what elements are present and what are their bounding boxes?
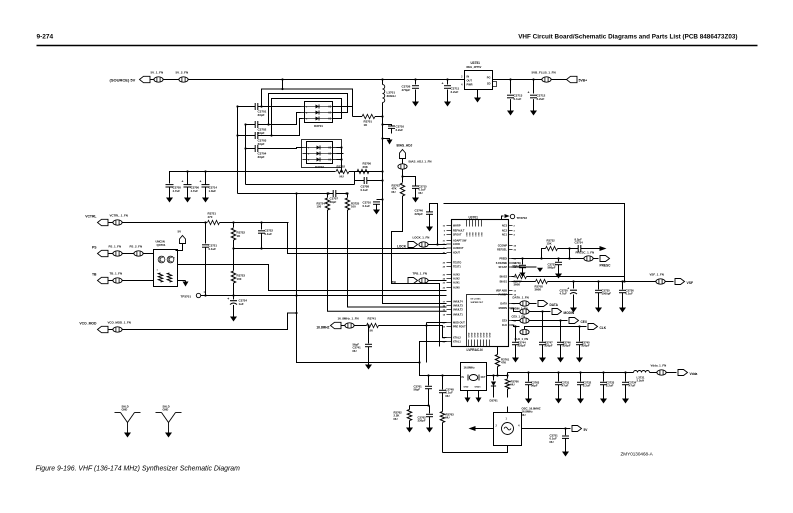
svg-text:CEX: CEX	[581, 320, 588, 324]
wire	[456, 375, 461, 377]
svg-text:BIAS_ADJ: BIAS_ADJ	[397, 144, 413, 148]
svg-text:16_8MHz_1_FN: 16_8MHz_1_FN	[338, 317, 359, 321]
ferrite bead VCTRL_1_FN	[109, 222, 113, 224]
svg-text:DATA: DATA	[550, 303, 559, 307]
svg-text:LOCK_1_FN: LOCK_1_FN	[413, 236, 430, 240]
svg-text:DATA_1_FN: DATA_1_FN	[513, 296, 529, 300]
svg-text:+: +	[182, 180, 184, 184]
wire row 2 to IC	[288, 223, 447, 254]
svg-text:ZMY0130468-A: ZMY0130468-A	[621, 452, 654, 457]
ground SFCAP stub	[512, 266, 537, 268]
diode array D3701	[305, 102, 333, 123]
wire 5V rail	[189, 79, 461, 81]
svg-text:GND: GND	[122, 408, 128, 412]
capacitor C3724	[233, 296, 235, 300]
svg-text:VCTRL: VCTRL	[85, 215, 96, 219]
svg-text:VHF Circuit Board/Schematic Di: VHF Circuit Board/Schematic Diagrams and…	[518, 34, 737, 41]
svg-text:MODIN_1_FN: MODIN_1_FN	[511, 307, 528, 311]
connector 5V right	[572, 426, 582, 432]
capacitor C3747 220pF	[542, 312, 544, 342]
svg-text:5VB+: 5VB+	[579, 79, 588, 83]
capacitor C3713	[510, 80, 512, 94]
svg-text:1.0uF: 1.0uF	[209, 189, 217, 193]
resistor R3703	[402, 177, 404, 183]
wire loop inner	[272, 99, 342, 136]
svg-text:4.7uF: 4.7uF	[191, 189, 199, 193]
svg-text:TP3702: TP3702	[517, 216, 528, 220]
svg-text:WARP: WARP	[453, 225, 461, 228]
capacitor C3762	[429, 406, 431, 414]
diode array D3702	[307, 142, 333, 164]
connector VSF	[675, 279, 685, 285]
capacitor C3734 8.2pF	[558, 248, 579, 250]
svg-text:TP3701: TP3701	[181, 295, 192, 299]
svg-text:560pF: 560pF	[513, 264, 521, 268]
resistor R3725	[347, 194, 349, 198]
svg-text:2.2uF: 2.2uF	[583, 384, 591, 388]
wire	[143, 253, 153, 255]
capacitor C3708	[355, 172, 365, 181]
svg-text:R3702: R3702	[337, 165, 346, 169]
svg-text:0.1uF: 0.1uF	[265, 232, 273, 236]
svg-text:5VD: 5VD	[482, 232, 484, 237]
svg-text:16.8MHz: 16.8MHz	[464, 366, 476, 370]
wire reference bus lower	[297, 296, 420, 363]
connector PRESC	[600, 256, 610, 262]
svg-text:TB: TB	[392, 281, 397, 285]
svg-text:MODIN: MODIN	[499, 307, 508, 310]
legend ground symbol 2	[156, 412, 162, 414]
svg-text:47K: 47K	[501, 361, 506, 365]
wire loop middle	[269, 94, 348, 125]
ferrite bead CLK_1_FN	[512, 324, 514, 326]
ferrite bead Vdda_1_FN	[657, 370, 666, 375]
svg-text:0.1uF: 0.1uF	[514, 97, 522, 101]
svg-text:CLK: CLK	[502, 324, 507, 327]
svg-text:Figure 9-196. VHF (136-174 MH: Figure 9-196. VHF (136-174 MHz) Synthesi…	[36, 466, 241, 473]
ferrite bead VSF_1_FN	[656, 279, 665, 284]
svg-text:100: 100	[351, 205, 356, 209]
capacitor C3729	[522, 259, 524, 265]
capacitor C3714	[205, 172, 207, 185]
capacitor C3748	[442, 376, 444, 390]
inductor L3701	[382, 80, 384, 85]
node BIAS_ADJ	[383, 139, 390, 140]
svg-text:MOD OUT: MOD OUT	[453, 322, 465, 325]
svg-text:2.2uF: 2.2uF	[451, 90, 459, 94]
arrow prescaler	[600, 246, 607, 251]
resistor R3724	[327, 194, 329, 198]
svg-text:56: 56	[370, 329, 374, 333]
svg-text:+: +	[200, 180, 202, 184]
svg-text:GND: GND	[478, 332, 480, 337]
resistor R3707	[512, 276, 515, 278]
svg-text:56pF: 56pF	[414, 388, 421, 392]
svg-text:.47uF: .47uF	[561, 384, 569, 388]
svg-text:+: +	[528, 91, 530, 95]
resistor R3741	[354, 325, 366, 327]
svg-text:15K: 15K	[547, 242, 552, 246]
svg-text:1uF: 1uF	[239, 302, 244, 306]
svg-text:GND: GND	[484, 332, 486, 337]
ferrite bead 5V_1_FN	[154, 77, 163, 82]
capacitor C3732	[580, 373, 582, 382]
capacitor C3704	[246, 148, 256, 150]
ferrite bead 5VB_FLLB_1_FN	[542, 77, 551, 82]
capacitor C3744 220pF	[515, 327, 517, 342]
connector CLK	[588, 324, 598, 330]
svg-text:360K: 360K	[514, 283, 521, 287]
ferrite bead LOCK_1_FN	[419, 242, 428, 247]
svg-text:5VD: 5VD	[473, 232, 475, 237]
wire row MOD OUT	[427, 322, 447, 324]
resistor R3701	[352, 107, 354, 117]
wire	[282, 80, 284, 90]
capacitor C3733	[603, 373, 605, 382]
wire PREDI row	[512, 258, 584, 260]
svg-text:LOCK: LOCK	[397, 245, 407, 249]
capacitor C3712	[533, 80, 535, 94]
svg-text:S FRAME: S FRAME	[496, 262, 508, 265]
svg-text:33pF: 33pF	[258, 155, 265, 159]
svg-text:Vdda_1_FN: Vdda_1_FN	[651, 364, 667, 368]
svg-text:0.1uF: 0.1uF	[363, 204, 371, 208]
svg-text:PRESC: PRESC	[600, 264, 612, 268]
wire bias bus	[382, 103, 384, 200]
svg-text:AUX1: AUX1	[453, 282, 460, 285]
svg-text:GND: GND	[464, 387, 469, 389]
wire D3702 to R3702 node	[341, 148, 343, 172]
wire	[122, 280, 153, 282]
svg-text:GND: GND	[481, 332, 483, 337]
svg-text:D3701: D3701	[314, 124, 323, 128]
svg-text:BIAS_ADJ_1_FN: BIAS_ADJ_1_FN	[409, 160, 432, 164]
header rule	[37, 45, 758, 47]
ferrite bead PS_1_FN	[109, 253, 113, 255]
wire R3732 branch	[542, 249, 546, 259]
capacitor C3705	[166, 184, 174, 186]
wire row VMULT c	[328, 210, 447, 311]
wire to XTAL1	[379, 326, 447, 338]
wire Q3701 5V feed	[176, 244, 183, 251]
svg-text:16.8MHZ: 16.8MHZ	[316, 326, 329, 330]
resistor R3722	[233, 223, 235, 228]
ground Y3741 a	[467, 391, 469, 398]
transistor pair Q3701	[154, 250, 178, 287]
resistor R3723	[233, 249, 235, 271]
wire	[349, 171, 383, 173]
svg-text:NU: NU	[550, 440, 554, 444]
module box notch	[392, 201, 440, 347]
wire osc bottom return	[443, 446, 508, 453]
svg-text:5VD: 5VD	[476, 232, 478, 237]
svg-text:D3761: D3761	[490, 399, 499, 403]
svg-text:470: 470	[208, 215, 213, 219]
svg-text:GND: GND	[472, 332, 474, 337]
resistor R3702	[336, 169, 349, 173]
svg-text:AUXOUT: AUXOUT	[453, 247, 464, 250]
svg-text:CLK: CLK	[600, 326, 607, 330]
junction	[186, 170, 188, 172]
svg-text:U3701: U3701	[469, 216, 479, 220]
svg-text:4.7uF: 4.7uF	[560, 292, 568, 296]
svg-text:AUX3: AUX3	[453, 274, 460, 277]
svg-text:33pF: 33pF	[258, 131, 265, 135]
wire supply bus to cap bank	[170, 172, 336, 184]
svg-text:PREDI: PREDI	[499, 258, 507, 261]
ferrite bead DATA_1_FN	[512, 303, 520, 305]
module box outline	[444, 204, 625, 282]
svg-text:0.1uF: 0.1uF	[361, 188, 369, 192]
svg-text:2.2uF: 2.2uF	[606, 384, 614, 388]
wire VSF rail	[548, 281, 656, 283]
capacitor C3722	[261, 223, 263, 230]
svg-text:REG_4P75V: REG_4P75V	[467, 65, 482, 69]
capacitor C3751	[565, 429, 567, 436]
svg-text:NU: NU	[419, 191, 423, 195]
wire osc left	[475, 428, 494, 430]
resistor R3761	[497, 347, 499, 355]
junction	[509, 78, 511, 80]
svg-text:OUT: OUT	[467, 79, 473, 83]
svg-text:5V: 5V	[178, 230, 182, 234]
svg-text:PS_2_FN: PS_2_FN	[130, 245, 143, 249]
svg-text:Vdda: Vdda	[690, 372, 698, 376]
svg-text:C3734: C3734	[575, 241, 584, 245]
svg-text:VMULT3: VMULT3	[453, 305, 463, 308]
connector CEX	[569, 318, 579, 324]
svg-text:LOCK: LOCK	[453, 243, 460, 246]
ferrite bead TB_1_FN	[109, 280, 113, 282]
connector 5V source	[140, 76, 151, 82]
connector BIAS_ADJ up-arrow	[400, 150, 406, 159]
capacitor C3731	[558, 373, 560, 382]
svg-text:AUX0: AUX0	[453, 287, 460, 290]
svg-text:BIAS2: BIAS2	[500, 276, 508, 279]
ground Q3701	[178, 280, 186, 282]
svg-text:PS_1_FN: PS_1_FN	[109, 245, 122, 249]
svg-text:220pF: 220pF	[545, 344, 553, 348]
svg-text:VMULT4: VMULT4	[453, 301, 463, 304]
legend ground symbol 1	[115, 412, 121, 414]
svg-text:560pF: 560pF	[548, 266, 556, 270]
wire Q3701 collector row	[178, 265, 447, 291]
wire vertical reference bus	[296, 194, 298, 296]
svg-text:SD: SD	[487, 82, 491, 86]
svg-text:VCO_MOD_1_FN: VCO_MOD_1_FN	[108, 321, 131, 325]
svg-text:GND1: GND1	[475, 387, 482, 389]
svg-text:DATA: DATA	[500, 303, 507, 306]
svg-text:SFOUT: SFOUT	[453, 234, 462, 237]
resistor R3766	[507, 376, 509, 379]
svg-text:2.2uF: 2.2uF	[537, 97, 545, 101]
capacitor C3715	[403, 177, 416, 186]
svg-text:NU: NU	[446, 416, 450, 420]
svg-text:2.2uF: 2.2uF	[396, 128, 404, 132]
svg-text:.47uF: .47uF	[628, 384, 636, 388]
svg-text:NU: NU	[511, 383, 515, 387]
ferrite bead TPB_1_FN	[419, 278, 428, 283]
svg-text:REFAULT: REFAULT	[453, 230, 465, 233]
ferrite bead 16_8MHz_1_FN	[341, 325, 345, 327]
connector MODIN	[552, 309, 562, 315]
svg-text:TPB_1_FN: TPB_1_FN	[413, 272, 427, 276]
wire osc top	[507, 407, 509, 413]
connector DATA	[538, 301, 548, 307]
svg-text:PRE FOUT: PRE FOUT	[453, 326, 466, 329]
capacitor C3730	[573, 282, 575, 289]
svg-text:5VD: 5VD	[479, 232, 481, 237]
wire	[569, 249, 571, 259]
capacitor C3706	[187, 172, 189, 185]
svg-text:XTAL1: XTAL1	[453, 341, 461, 344]
capacitor C3710	[377, 199, 383, 201]
wire 5VB rail	[498, 79, 542, 81]
svg-text:VSF: VSF	[687, 281, 694, 285]
svg-text:PS: PS	[92, 246, 97, 250]
wire row VMULT b	[348, 210, 447, 307]
ground of U3751	[477, 90, 479, 98]
oscillator module OSC_16.8MHZ	[494, 413, 522, 446]
diode D3761	[493, 376, 495, 381]
svg-text:4.7uF: 4.7uF	[173, 189, 181, 193]
svg-text:CCOMP: CCOMP	[498, 245, 508, 248]
capacitor C3746 220pF	[430, 204, 438, 245]
svg-text:SUPER FILT: SUPER FILT	[471, 302, 484, 304]
svg-text:0.1uF: 0.1uF	[626, 292, 634, 296]
svg-text:0.1uF: 0.1uF	[209, 247, 217, 251]
svg-text:Q3701: Q3701	[157, 243, 166, 247]
svg-text:U3751: U3751	[471, 61, 481, 65]
svg-text:2.2uH: 2.2uH	[637, 379, 645, 383]
wire	[246, 184, 355, 186]
pin stub U3751 right	[493, 79, 498, 81]
svg-text:330pF: 330pF	[418, 419, 426, 423]
box around D3702	[302, 140, 342, 168]
junction	[281, 78, 283, 80]
wire vertical bus left of diode bank	[237, 107, 239, 194]
svg-text:VMULT2: VMULT2	[453, 309, 463, 312]
svg-text:5V LOGIC: 5V LOGIC	[471, 299, 482, 301]
supply arrow 5V	[180, 236, 186, 244]
svg-text:NU: NU	[392, 190, 396, 194]
svg-text:NU: NU	[353, 349, 357, 353]
junction	[236, 105, 238, 107]
svg-text:360K: 360K	[535, 288, 542, 292]
test point TP3702	[502, 216, 504, 220]
capacitor C3721	[205, 223, 207, 244]
junction	[514, 325, 516, 327]
svg-text:LVFRAC-N: LVFRAC-N	[467, 348, 484, 352]
inductor L3731	[634, 371, 650, 373]
svg-text:GND: GND	[490, 332, 492, 337]
wire XTAL2 route	[420, 342, 456, 376]
svg-text:OUT: OUT	[481, 377, 486, 379]
resistor R3721	[208, 220, 220, 224]
svg-text:390nH: 390nH	[387, 94, 396, 98]
svg-text:CEX_1_FN: CEX_1_FN	[512, 315, 526, 319]
svg-text:PG: PG	[487, 76, 491, 80]
ferrite bead CEX_1_FN	[512, 320, 520, 322]
regulator U3751	[465, 71, 493, 90]
svg-text:5V_1_FN: 5V_1_FN	[151, 71, 164, 75]
svg-text:5VD: 5VD	[470, 232, 472, 237]
wire bias bus to IC	[383, 200, 447, 304]
svg-text:100: 100	[237, 277, 242, 281]
capacitor C3701	[238, 106, 256, 108]
ferrite bead 5V_2_FN	[179, 77, 188, 82]
svg-text:NU: NU	[522, 413, 526, 417]
svg-text:IN: IN	[467, 75, 470, 79]
svg-text:UMC5N: UMC5N	[156, 240, 165, 244]
wire	[410, 405, 430, 407]
svg-text:NC1: NC1	[502, 234, 508, 237]
capacitor C3733	[558, 259, 560, 262]
svg-text:+: +	[227, 297, 229, 301]
svg-text:VCO_MOD: VCO_MOD	[79, 322, 97, 326]
svg-text:220pF: 220pF	[563, 344, 571, 348]
svg-text:NU: NU	[446, 394, 450, 398]
resistor R3708	[512, 281, 536, 283]
capacitor C3726	[415, 80, 417, 85]
svg-text:REFSEL: REFSEL	[497, 249, 507, 252]
svg-text:5VB_FLLB_1_FN: 5VB_FLLB_1_FN	[532, 71, 556, 75]
wire	[220, 222, 289, 224]
svg-text:100: 100	[317, 205, 322, 209]
svg-text:9-274: 9-274	[37, 34, 54, 41]
capacitor C3745 220pF	[579, 327, 581, 342]
IC U3701 synthesizer	[452, 220, 509, 347]
svg-text:5VD: 5VD	[467, 232, 469, 237]
crystal oscillator Y3741	[461, 363, 487, 391]
svg-text:220pF: 220pF	[582, 344, 590, 348]
ferrite bead PS_2_FN	[122, 253, 133, 255]
resistor R3762	[409, 406, 411, 410]
svg-text:SFCAP: SFCAP	[499, 266, 508, 269]
svg-text:CEX: CEX	[502, 320, 507, 323]
svg-text:1000pF: 1000pF	[602, 292, 612, 296]
wire VCO_MOD run	[122, 313, 296, 330]
svg-text:+: +	[442, 82, 444, 86]
capacitor C3702	[246, 124, 256, 126]
svg-text:NC2: NC2	[502, 230, 508, 233]
svg-text:VCTRL_1_FN: VCTRL_1_FN	[110, 214, 128, 218]
svg-text:TEST1: TEST1	[453, 266, 461, 269]
svg-text:NU: NU	[394, 417, 398, 421]
ferrite bead VCO_MOD_1_FN	[109, 329, 113, 331]
svg-text:TB_1_FN: TB_1_FN	[110, 272, 123, 276]
junction	[367, 324, 369, 326]
capacitor C3736	[622, 282, 624, 290]
connector 5VB+	[567, 76, 578, 82]
ferrite bead MODIN_1_FN	[512, 307, 514, 309]
svg-text:NC3: NC3	[502, 225, 508, 228]
svg-text:TB: TB	[92, 273, 97, 277]
resistor R3706	[355, 171, 357, 173]
svg-text:GND: GND	[163, 408, 169, 412]
svg-text:MODIN: MODIN	[564, 311, 575, 315]
svg-text:PWR: PWR	[467, 83, 473, 87]
wire	[552, 79, 567, 81]
wire	[337, 147, 342, 149]
wire osc out	[522, 428, 571, 430]
svg-text:BIAS1: BIAS1	[500, 281, 508, 284]
svg-text:33pF: 33pF	[258, 113, 265, 117]
wire	[461, 79, 465, 81]
capacitor C3735	[598, 282, 600, 290]
wire row to IC	[234, 248, 447, 250]
capacitor C3716	[383, 125, 392, 126]
